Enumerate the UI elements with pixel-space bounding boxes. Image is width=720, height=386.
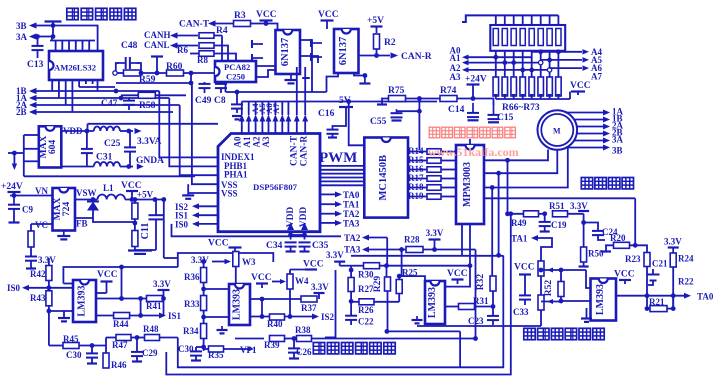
junction [496,253,501,258]
svg-text:C22: C22 [358,317,374,327]
ground r75 [377,105,387,108]
wire [561,300,591,302]
svg-text:FB: FB [76,219,88,229]
svg-text:R20: R20 [610,233,626,243]
node 3A [16,32,28,42]
wire r8 down [214,54,236,62]
arrow pulldown [556,94,560,99]
capacitor C13 [32,46,44,50]
label C9 [22,205,33,215]
resistor R15 [427,158,441,164]
IC LM393 U4 [229,284,250,325]
wire pca bottom pins [225,82,227,92]
label R21 [649,297,665,307]
resistor R66-R73 bank [529,77,535,96]
arrow 2B [603,131,610,137]
label R16 [408,164,424,174]
wire [304,247,306,251]
wire [241,102,243,116]
svg-text:3.3V: 3.3V [153,279,171,289]
capacitor C24 [592,231,604,235]
svg-text:6N137: 6N137 [280,38,291,67]
wire [13,192,15,196]
svg-text:R41: R41 [146,301,162,311]
wire [557,15,559,25]
arrow cmp1 [547,267,553,272]
svg-text:+5V: +5V [137,190,154,200]
capacitor C48 [117,57,139,69]
svg-text:R26: R26 [358,305,374,315]
wire ta2 drop [386,238,388,266]
svg-text:C9: C9 [22,205,33,215]
junction [126,129,131,134]
wire [504,96,506,99]
svg-text:IS0: IS0 [7,283,21,293]
wire [248,102,250,116]
junction [417,109,422,114]
label A3 pin [261,136,271,147]
node TA3 [343,218,360,228]
svg-text:C49: C49 [195,96,212,106]
label +5V [137,190,154,200]
junction [556,49,561,54]
svg-text:R45: R45 [63,334,79,344]
svg-text:+5V: +5V [367,16,384,26]
IC LM393 U6 [591,279,617,321]
capacitor C49 [199,84,211,88]
wire [155,94,186,96]
wire [287,122,289,134]
label VSS2 [221,189,238,199]
wire [492,291,494,315]
wire motor line [574,119,603,121]
label MAX724b [62,202,72,217]
wire r49 line [508,213,525,215]
arrow VP1 [248,346,255,351]
junction [90,343,95,348]
wire [504,15,506,25]
wire [434,240,436,250]
wire [214,35,222,37]
wire [287,102,289,116]
label VCC [208,239,229,249]
label R39 [264,340,280,350]
label C250 [226,72,245,82]
junction [119,96,124,101]
arrow CAN up [302,115,308,122]
label R31 [473,296,489,306]
power VCC dip [571,90,585,92]
svg-text:R4: R4 [216,26,228,36]
label R29 [373,276,383,293]
arrow pulldown [521,94,525,99]
ground c30 [87,364,97,367]
capacitor C9 [8,196,20,209]
svg-text:3B: 3B [16,21,27,31]
ground c34 [286,252,296,255]
wire A2 row [469,69,550,71]
wire [48,258,50,266]
label 5V [339,96,351,106]
wire sense drop1 [507,160,509,214]
label 6N137 [280,38,291,67]
svg-text:PHA1: PHA1 [224,170,248,180]
wire c21 stem [652,269,654,275]
wire [30,261,32,268]
wire [131,337,145,339]
wire [380,265,471,267]
wire ta3 to err [475,250,477,339]
svg-text:A2: A2 [252,136,262,147]
label R36 [184,272,200,282]
label R50 [588,249,604,259]
label PHB1 [224,161,248,171]
label PCA82 [224,62,250,72]
resistor R36 [201,268,207,283]
label C13 [27,60,44,70]
arrow 1A [29,95,37,101]
wire pwm [320,165,364,167]
junction [505,211,510,216]
junction [645,293,650,298]
wire left drop [325,270,336,337]
svg-text:DSP56F807: DSP56F807 [253,182,298,192]
wire gnd rail [61,166,94,168]
arrow A6 up [279,115,285,122]
svg-text:3.3V: 3.3V [191,255,209,265]
resistor R16 [427,167,441,173]
wire pin stub [68,41,70,52]
label R14 [408,146,424,156]
wire [261,102,263,116]
wire pin stub [55,41,57,52]
label A2 pin [252,136,262,147]
svg-text:3A: 3A [612,135,624,145]
label C26 [296,347,312,357]
wire can branch [116,73,191,83]
wire [624,280,626,284]
svg-text:R2: R2 [384,38,396,48]
svg-text:CAN-T: CAN-T [290,135,300,166]
arrow down [12,164,17,171]
wire pin stub [61,41,63,52]
wire [177,45,198,47]
ground c15 [488,122,499,125]
svg-text:CANH: CANH [144,30,171,40]
label MC1450B [378,155,389,201]
svg-text:VCC: VCC [256,10,277,20]
wire c55 branch [397,99,420,112]
label R19 [408,191,424,201]
wire [531,15,533,25]
junction [201,345,206,350]
wire [304,122,306,134]
label C16 [318,109,335,119]
label R38 [295,325,311,335]
junction [201,315,206,320]
wire pin stub [58,80,60,98]
resistor R60 [167,70,184,76]
svg-text:R74: R74 [440,86,457,96]
power 3.3 cd [334,261,345,263]
svg-text:R66~R73: R66~R73 [502,103,540,113]
resistor R43 [46,291,52,306]
resistor R24 [670,253,676,267]
wire [557,51,559,77]
wire pin stub [85,80,87,84]
junction [473,336,478,341]
IC 6N137 U1 [276,30,301,74]
junction [645,306,650,311]
label VCC err [614,270,635,280]
wire right bus [163,200,165,259]
svg-text:VSW: VSW [76,188,97,198]
wire [204,348,209,350]
junction [161,197,166,202]
node 3A [612,135,624,145]
power 24v bar [467,83,480,85]
svg-text:724: 724 [62,202,72,217]
wire vdd rail [61,130,94,132]
junction [288,233,293,238]
wire box top [178,253,273,267]
wire [121,94,138,96]
junction [130,197,135,202]
wire pin stub [71,80,73,112]
svg-text:GNDA: GNDA [136,156,164,166]
wire [304,232,306,240]
wire [441,178,456,180]
wire r20 left [606,245,614,251]
wire [274,102,276,116]
capacitor C35 [299,242,311,246]
wire [96,282,107,294]
IC PCA82C250 [215,61,256,82]
arrow CANH [170,32,178,38]
arrow TA3 mid [362,247,369,253]
label C21 [652,259,668,269]
wire [369,237,387,239]
wire C13 stem [37,37,39,59]
wire motor line [577,126,603,128]
wire [177,35,198,37]
wire [204,316,229,318]
wire [549,96,551,99]
wire [531,51,533,77]
node CAN-R [401,52,432,62]
wire [49,345,63,347]
node TA1 [511,234,528,244]
power 5V bar [339,106,353,108]
wire [63,311,65,318]
wire u1 out2 [300,56,318,63]
wire [539,213,546,215]
junction [119,265,124,270]
wire [583,214,585,248]
inductor L1 [98,194,126,199]
junction [133,197,138,202]
junction [417,96,422,101]
wire [408,178,427,180]
label LM393 u5 [427,287,438,318]
wire enc-2b [192,83,218,184]
node IS0 [175,219,189,229]
label MAX604b [48,140,58,155]
wire [196,347,204,360]
wire [281,122,283,134]
label R40 [267,319,283,329]
wire [531,96,533,99]
wire [261,299,263,317]
switch element [529,29,534,46]
label VCC w4 [303,260,324,270]
label PWM [319,150,357,166]
arrow 3A [29,33,37,39]
resistor R47 [116,335,131,341]
label R30 [358,270,374,280]
svg-text:R42: R42 [30,269,46,279]
label MAX724a [53,198,63,221]
arrow CANL [170,42,178,48]
junction [260,314,265,319]
wire [63,283,73,285]
svg-text:C30: C30 [66,350,82,360]
label VSS [221,180,238,190]
svg-text:2B: 2B [16,107,27,117]
switch S1 body [490,25,565,51]
wire pin stub [92,80,94,84]
arrow TA0 [684,293,691,299]
node 1A [16,93,28,103]
resistor R52b [538,295,544,310]
wire enc-index1 [159,91,218,157]
wire c23 frame [459,331,461,367]
junction [119,296,124,301]
junction [288,314,293,319]
wire long bottom [24,175,195,177]
wire [495,96,497,99]
wire [540,51,542,77]
junction [12,193,17,198]
label R18 [408,182,424,192]
VDD pin arrow [287,223,294,231]
wire [549,15,551,25]
arrow IS1 [159,313,166,319]
svg-text:TA3: TA3 [343,218,360,228]
wire to vcc [569,92,571,100]
junction [135,335,140,340]
wire [255,122,257,134]
svg-text:VP1: VP1 [240,345,257,355]
junction [542,211,547,216]
resistor R49 [524,211,539,217]
capacitor C25 [124,147,136,151]
switch element [511,29,516,46]
junction [201,259,206,264]
arrow 2A [603,124,610,130]
resistor R3 [234,21,251,27]
arrow 3.3VA [135,128,142,134]
title overcurrent 过流检测 [581,177,633,188]
wire r46 top [105,338,107,346]
wire [30,247,32,256]
arrow to W4 [280,279,286,284]
wire [351,301,359,303]
svg-text:R44: R44 [113,319,129,329]
wire [406,98,441,100]
arrow 1A [603,110,610,116]
svg-text:A7: A7 [591,72,602,82]
svg-text:TA3: TA3 [344,245,361,255]
node A2 [450,63,461,73]
svg-text:R6: R6 [177,45,188,55]
wire [52,22,54,37]
resistor R6 [199,43,214,49]
label C25 [104,139,121,149]
wire pin stub [88,41,90,52]
wire in link [63,267,177,284]
wire [408,196,427,198]
label R15 [408,155,424,165]
wire [560,270,562,302]
svg-text:C15: C15 [497,113,514,123]
wire [272,281,280,283]
resistor R39 [270,336,285,342]
resistor R21 [650,306,667,312]
wire [441,169,456,171]
wire vn rail [10,195,53,197]
wire [326,21,328,30]
arrow 1B [29,88,37,94]
wire [504,51,506,77]
svg-text:L1: L1 [103,183,114,193]
wire long top [88,123,219,125]
svg-text:M: M [553,127,561,136]
label R17 [408,173,424,183]
arrow A6 [583,65,590,70]
junction [47,285,52,290]
svg-text:R58: R58 [139,101,156,111]
wire [408,187,427,189]
node IS2 [175,202,189,212]
arrow IS1 [192,212,199,218]
ground fb [128,251,152,254]
label 3.3V err [570,201,588,211]
junction [491,304,496,309]
wire [540,276,542,299]
wire r4 down [221,36,223,62]
wire [340,262,351,266]
wire corner [87,124,89,131]
resistor R31 [459,304,475,310]
power vcc w3 [229,246,242,248]
svg-text:LM393: LM393 [232,289,243,320]
node open sw [539,60,543,64]
resistor R40 [270,314,285,320]
wire [13,209,15,222]
arrow addr [462,54,469,59]
wire [408,151,427,153]
arrow addr [462,60,469,65]
wire [350,301,352,325]
switch element [547,29,552,46]
wire CAN bus [226,91,327,93]
wire [387,266,388,332]
svg-text:A3: A3 [261,136,271,147]
svg-text:C8: C8 [214,96,226,106]
wire pin stub [82,41,84,52]
wire [235,338,264,340]
